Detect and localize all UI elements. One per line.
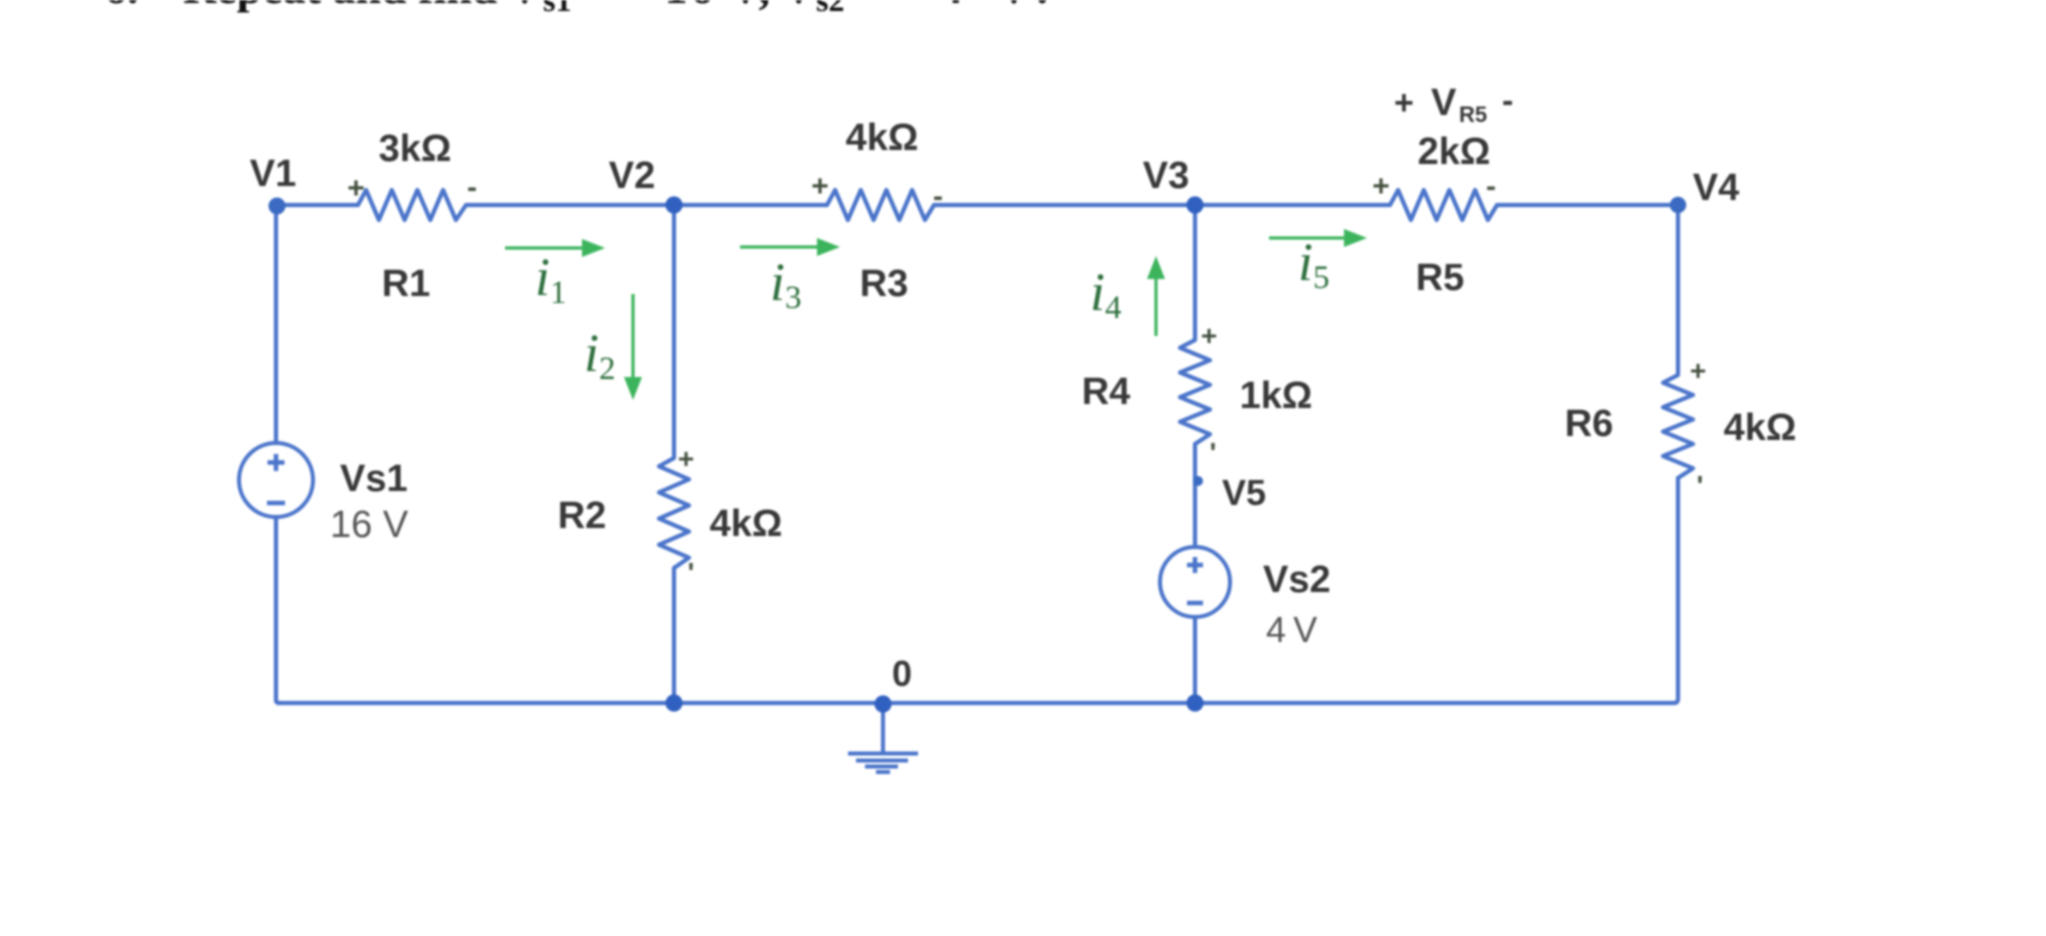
node V5 dot <box>1193 476 1203 486</box>
svg-text:': ' <box>688 557 695 588</box>
svg-text:R3: R3 <box>860 263 909 305</box>
svg-text:': ' <box>1210 437 1217 468</box>
svg-text:V3: V3 <box>1143 155 1189 197</box>
svg-text:R4: R4 <box>1082 371 1131 413</box>
wire V2 rail lower <box>672 568 676 703</box>
node V4 dot <box>1670 197 1686 213</box>
resistor R3 4k zigzag <box>827 190 934 220</box>
svg-text:R1: R1 <box>382 263 431 305</box>
svg-text:-: - <box>467 171 477 204</box>
svg-text:V4: V4 <box>1693 167 1739 209</box>
svg-text:+: + <box>347 172 365 205</box>
svg-text:R5: R5 <box>1416 257 1465 299</box>
svg-text:0: 0 <box>892 653 912 694</box>
svg-text:s1: s1 <box>543 0 571 18</box>
svg-text:4kΩ: 4kΩ <box>846 117 919 159</box>
node bottom under V3 <box>1186 694 1203 711</box>
svg-text:R2: R2 <box>558 495 607 537</box>
svg-text:4 V: 4 V <box>1266 609 1317 650</box>
svg-text:+: + <box>678 443 694 474</box>
svg-text:V5: V5 <box>1222 472 1266 513</box>
svg-text:2kΩ: 2kΩ <box>1418 131 1491 173</box>
svg-text:V1: V1 <box>250 153 296 195</box>
wire: top rail segments <box>276 205 1678 703</box>
current arrow i4 <box>1147 256 1165 336</box>
svg-text:1kΩ: 1kΩ <box>1240 375 1313 417</box>
top cropped problem text <box>104 0 1048 18</box>
wire V3 rail upper <box>1193 205 1197 340</box>
svg-text:+: + <box>1372 170 1390 203</box>
wire V1 to R1 <box>276 203 358 207</box>
svg-text:6.: 6. <box>104 0 139 13</box>
svg-text:= 4 V.: = 4 V. <box>878 0 1048 13</box>
svg-text:V2: V2 <box>609 155 655 197</box>
wire left rail lower <box>276 517 280 703</box>
wire left rail upper <box>274 205 278 443</box>
node bottom under V2 <box>665 694 682 711</box>
wire V3 rail middle <box>1193 444 1197 547</box>
svg-text:3kΩ: 3kΩ <box>379 128 452 170</box>
svg-text:+: + <box>811 170 829 203</box>
resistor R4 1k zigzag vertical <box>1180 340 1210 444</box>
node V3 dot <box>1186 196 1203 213</box>
node V2 dot <box>665 196 682 213</box>
svg-text:4kΩ: 4kΩ <box>710 503 783 545</box>
node ground junction <box>874 695 891 712</box>
resistor R6 4k zigzag vertical <box>1663 375 1693 478</box>
svg-text:Vs2: Vs2 <box>1263 559 1331 601</box>
svg-text:i5: i5 <box>1298 232 1330 296</box>
svg-text:i2: i2 <box>584 323 616 387</box>
wire V2 rail upper <box>672 205 676 458</box>
svg-text:+: + <box>1394 84 1414 122</box>
svg-text:-: - <box>1486 170 1496 203</box>
source Vs1 circle <box>239 443 313 517</box>
wire R5 to V4 <box>1497 203 1678 207</box>
svg-text:-: - <box>1502 82 1513 120</box>
resistor R2 4k zigzag vertical <box>659 458 689 568</box>
svg-text:4kΩ: 4kΩ <box>1724 407 1797 449</box>
current arrow i1 <box>505 239 605 257</box>
svg-text:Repeat and find V: Repeat and find V <box>183 0 541 13</box>
current arrow i2 <box>624 294 642 400</box>
svg-text:Vs1: Vs1 <box>340 458 408 500</box>
svg-text:i3: i3 <box>770 252 802 316</box>
svg-text:+: + <box>1690 355 1706 386</box>
svg-text:+: + <box>1201 320 1217 351</box>
wire V3 rail lower <box>1193 617 1197 703</box>
source Vs2 circle <box>1160 547 1230 617</box>
svg-text:s2: s2 <box>816 0 844 18</box>
wire bottom rail <box>278 701 1674 705</box>
svg-text:V: V <box>1431 82 1457 124</box>
svg-text:= 16 V,: = 16 V, <box>622 0 770 13</box>
ground symbol <box>848 703 918 772</box>
svg-text:R6: R6 <box>1565 403 1614 445</box>
wire R3 to V3 to R5 <box>934 203 1390 207</box>
svg-text:i4: i4 <box>1090 262 1122 326</box>
svg-text:16 V: 16 V <box>330 504 409 546</box>
resistor R5 2k zigzag <box>1390 190 1497 220</box>
svg-text:R5: R5 <box>1459 102 1487 127</box>
node V1 dot <box>269 198 286 215</box>
wire right rail upper <box>1676 205 1680 375</box>
current arrow i5 <box>1269 229 1367 247</box>
wire R1 to V2 to R3 <box>466 203 827 207</box>
svg-text:i1: i1 <box>535 247 567 311</box>
svg-text:': ' <box>1697 470 1704 501</box>
svg-text:-: - <box>933 180 943 213</box>
svg-text:V: V <box>782 0 815 13</box>
resistor R1 3k zigzag <box>358 190 466 220</box>
current arrow i3 <box>740 238 840 256</box>
wire right rail lower <box>1674 478 1678 703</box>
